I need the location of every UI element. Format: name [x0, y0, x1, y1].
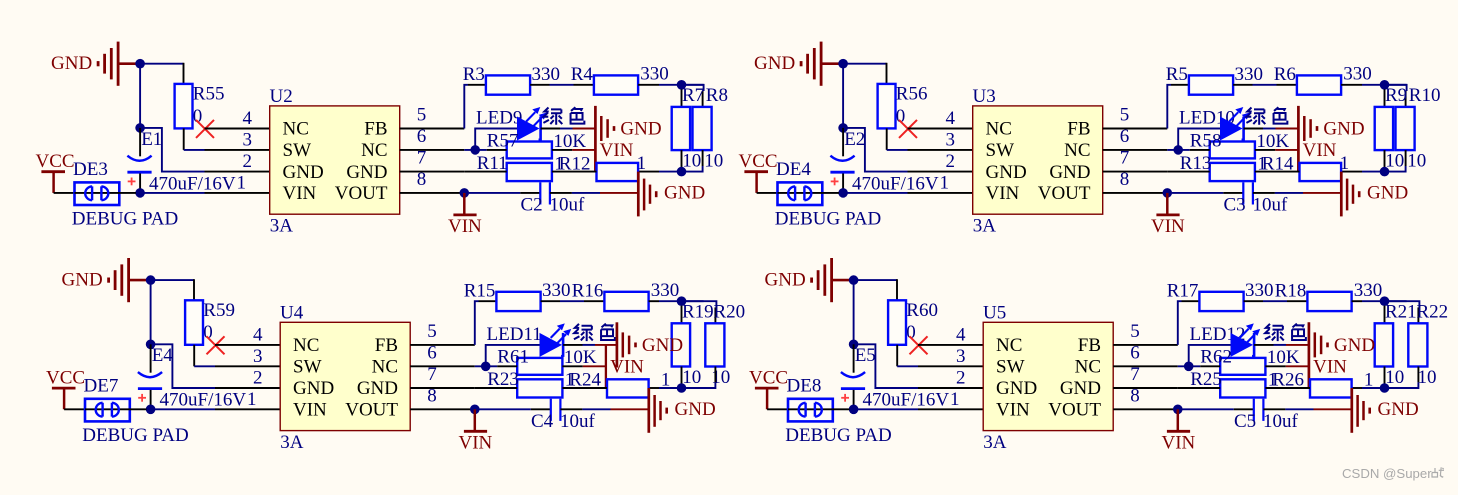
wire junction up to LED [475, 129, 517, 150]
wire between divider resistors [1255, 171, 1300, 173]
svg-text:10: 10 [1385, 367, 1404, 388]
svg-text:R10: R10 [1409, 85, 1441, 106]
svg-text:NC: NC [1075, 357, 1101, 378]
svg-text:GND: GND [1060, 378, 1101, 399]
capacitor C2 (10uf) [469, 182, 585, 215]
svg-text:GND: GND [754, 53, 795, 74]
wire 330 to divider top [638, 84, 681, 86]
node VOUT junction (Q1) [460, 188, 470, 198]
wire junction to R pair tops [682, 301, 717, 323]
wire GND down to cap [150, 284, 152, 344]
svg-text:VCC: VCC [739, 151, 778, 172]
svg-text:4: 4 [956, 324, 966, 345]
svg-text:330: 330 [640, 64, 669, 85]
svg-text:GND: GND [765, 269, 806, 290]
wire GND junction to resistor drop [155, 279, 194, 300]
svg-text:VIN: VIN [610, 357, 644, 378]
svg-text:R56: R56 [896, 84, 928, 105]
wire pad to pin 1 [833, 408, 984, 410]
wire between divider resistors [1265, 387, 1310, 389]
svg-text:3A: 3A [973, 216, 997, 237]
wire between 330 resistors [1244, 300, 1308, 302]
svg-text:SW: SW [293, 357, 322, 378]
resistor R59 (0 ohm) [185, 300, 235, 345]
wire pin 3 stub [215, 365, 281, 367]
node divider top junction (Q2) [1380, 80, 1390, 90]
ground GND symbol (mid, Q3) [617, 322, 683, 367]
svg-text:R7: R7 [682, 85, 704, 106]
svg-text:VIN: VIN [1151, 216, 1185, 237]
svg-text:E5: E5 [855, 345, 876, 366]
svg-text:3A: 3A [983, 432, 1007, 453]
svg-text:GND: GND [1378, 399, 1419, 420]
svg-text:10: 10 [1418, 367, 1437, 388]
wire R 10K to VIN tap [1265, 365, 1309, 367]
wire pin 4 stub [215, 344, 281, 346]
debug pad DE3 [72, 159, 178, 229]
svg-text:VIN: VIN [1303, 140, 1337, 161]
svg-text:CSDN @Super: CSDN @Super [1342, 466, 1432, 481]
debug pad DE4 [775, 159, 881, 229]
svg-text:DE3: DE3 [73, 159, 108, 180]
resistor R21 (10) [1375, 302, 1417, 388]
svg-text:330: 330 [532, 64, 561, 85]
svg-text:1: 1 [1340, 153, 1350, 174]
wire R 10K to VIN tap [1255, 149, 1299, 151]
ground GND symbol (bottom right, Q4) [1352, 388, 1419, 433]
wire pin7 to R [1167, 171, 1209, 173]
svg-text:VIN: VIN [600, 140, 634, 161]
svg-text:10K: 10K [1267, 347, 1300, 368]
wire R pair bottoms [638, 150, 703, 172]
svg-text:U4: U4 [280, 302, 304, 323]
wire R pair bottoms [649, 367, 716, 389]
resistor R60 (0 ohm) [888, 300, 938, 345]
node divider bottom junction (Q1) [677, 167, 687, 177]
svg-text:2: 2 [956, 368, 966, 389]
wire GND down to cap [139, 68, 141, 128]
svg-text:R9: R9 [1385, 85, 1407, 106]
resistor R19 (10) [672, 302, 714, 388]
svg-text:VIN: VIN [1313, 357, 1347, 378]
op-amp regulator U5 (3A) [950, 302, 1140, 453]
wire between divider resistors [552, 171, 597, 173]
svg-text:VOUT: VOUT [1038, 183, 1091, 204]
node cap bottom junction (Q4) [849, 405, 859, 415]
svg-text:GND: GND [996, 378, 1037, 399]
svg-text:NC: NC [293, 335, 319, 356]
power VIN label (mid, Q4) [1313, 357, 1347, 378]
wire pin 5 stub [1103, 128, 1168, 130]
wire pin 7 stub [1113, 387, 1178, 389]
svg-text:5: 5 [1120, 105, 1130, 126]
svg-text:330: 330 [542, 280, 571, 301]
label green color [1246, 107, 1287, 124]
ground GND symbol (mid, Q4) [1309, 322, 1375, 388]
ground GND symbol (mid, Q1) [595, 106, 661, 172]
svg-text:330: 330 [1343, 64, 1372, 85]
wire pin 5 to feedback resistors [1167, 85, 1189, 129]
debug pad DE8 [785, 376, 891, 446]
wire R 10K to VIN tap [552, 149, 596, 151]
wire pin 3 stub [918, 365, 984, 367]
wire pin 6 stub [410, 365, 475, 367]
svg-text:1: 1 [237, 172, 247, 193]
svg-text:VIN: VIN [293, 400, 327, 421]
ground GND symbol (top left, Q3) [62, 258, 151, 302]
wire junction to R pair tops [682, 85, 704, 107]
svg-text:GND: GND [357, 378, 398, 399]
svg-text:1: 1 [940, 172, 950, 193]
svg-text:10uf: 10uf [1253, 195, 1289, 216]
svg-text:R60: R60 [906, 300, 938, 321]
wire R bottom to pin 3 [184, 128, 205, 150]
wire junction to pin 2 [848, 128, 974, 172]
power VCC symbol (Q1) [36, 151, 75, 193]
power VCC symbol (Q3) [46, 367, 85, 409]
wire pin6 to R 10K [1178, 365, 1220, 367]
svg-text:3A: 3A [280, 432, 304, 453]
resistor R11 (1) [477, 153, 564, 181]
wire pin 5 stub [400, 128, 465, 130]
svg-text:VCC: VCC [749, 367, 788, 388]
LED emission arrows [1240, 323, 1261, 343]
wire GND down to cap [842, 68, 844, 128]
node cap top junction (Q4) [849, 340, 859, 350]
op-amp regulator U4 (3A) [247, 302, 437, 453]
svg-text:VIN: VIN [996, 400, 1030, 421]
svg-text:R16: R16 [572, 281, 604, 302]
svg-text:GND: GND [664, 183, 705, 204]
LED emission arrows [526, 107, 547, 127]
wire pin 5 stub [1113, 344, 1178, 346]
svg-text:NC: NC [996, 335, 1022, 356]
node divider top junction (Q3) [677, 296, 687, 306]
wire cap to ground [550, 192, 638, 194]
svg-text:330: 330 [1235, 64, 1264, 85]
svg-text:10: 10 [682, 151, 701, 172]
node GND junction (Q3) [146, 275, 156, 285]
svg-text:R55: R55 [193, 84, 225, 105]
resistor R6 (330) [1274, 64, 1372, 95]
wire pin 4 stub [205, 128, 271, 130]
svg-text:R21: R21 [1385, 302, 1417, 323]
svg-text:10K: 10K [1256, 131, 1289, 152]
wire pin 8 stub [1113, 408, 1178, 410]
svg-text:DEBUG PAD: DEBUG PAD [775, 209, 881, 230]
node divider bottom junction (Q3) [677, 383, 687, 393]
wire 330 to divider top [1352, 300, 1385, 302]
svg-text:470uF/16V: 470uF/16V [149, 173, 236, 194]
ground GND symbol (bottom right, Q3) [649, 388, 716, 433]
no-connect X marker [910, 336, 928, 354]
svg-text:DE7: DE7 [84, 376, 119, 397]
wire GND junction to resistor drop [858, 279, 897, 300]
svg-text:1: 1 [950, 389, 960, 410]
capacitor E1 (470uF/16V) [127, 128, 235, 194]
wire pin 4 stub [918, 344, 984, 346]
svg-text:NC: NC [361, 140, 387, 161]
wire pad to pin 1 [130, 408, 281, 410]
svg-text:R3: R3 [463, 64, 485, 85]
svg-text:C4: C4 [531, 411, 554, 432]
node cap bottom junction (Q2) [838, 188, 848, 198]
resistor R4 (330) [571, 64, 669, 95]
wire pad to pin 1 [119, 192, 270, 194]
svg-text:R19: R19 [682, 302, 714, 323]
node divider bottom junction (Q4) [1380, 383, 1390, 393]
svg-text:GND: GND [293, 378, 334, 399]
resistor R7 (10) [672, 85, 704, 171]
node cap top junction (Q1) [135, 123, 145, 133]
resistor R12 (1) [559, 153, 646, 181]
wire between 330 resistors [530, 84, 594, 86]
resistor R16 (330) [572, 280, 680, 311]
wire pin 5 to feedback resistors [1178, 301, 1200, 345]
wire 330 to divider top [1341, 84, 1384, 86]
node cap top junction (Q2) [838, 123, 848, 133]
node VOUT junction (Q3) [470, 405, 480, 415]
resistor R57 (10K) [487, 130, 587, 158]
LED LED10 (green) [1179, 107, 1244, 141]
wire pin 7 stub [1103, 171, 1168, 173]
svg-text:10: 10 [1385, 151, 1404, 172]
wire junction to pin 2 [155, 344, 281, 388]
svg-text:10: 10 [1407, 151, 1426, 172]
svg-text:R62: R62 [1200, 347, 1232, 368]
svg-text:GND: GND [346, 162, 387, 183]
node LED feed junction (Q4) [1184, 362, 1194, 372]
resistor R62 (10K) [1200, 347, 1300, 375]
svg-text:FB: FB [375, 335, 398, 356]
svg-text:GND: GND [986, 162, 1027, 183]
wire junction to R pair tops [1385, 85, 1407, 107]
svg-text:DEBUG PAD: DEBUG PAD [785, 425, 891, 446]
svg-text:10K: 10K [564, 347, 597, 368]
svg-text:R8: R8 [706, 85, 728, 106]
wire cap to ground [560, 408, 648, 410]
svg-text:10: 10 [704, 151, 723, 172]
svg-text:R18: R18 [1275, 281, 1307, 302]
svg-text:GND: GND [1323, 119, 1364, 140]
wire pin 5 to feedback resistors [475, 301, 497, 345]
svg-text:R20: R20 [714, 302, 746, 323]
node GND junction (Q4) [849, 275, 859, 285]
resistor R9 (10) [1375, 85, 1407, 171]
svg-text:C5: C5 [1234, 411, 1256, 432]
svg-text:10: 10 [682, 367, 701, 388]
wire GND junction to resistor drop [145, 63, 184, 84]
resistor R3 (330) [463, 64, 560, 95]
svg-text:2: 2 [243, 151, 253, 172]
svg-text:VCC: VCC [36, 151, 75, 172]
wire R pair bottoms [1341, 150, 1406, 172]
resistor R58 (10K) [1190, 130, 1290, 158]
svg-text:10uf: 10uf [1263, 411, 1299, 432]
svg-text:SW: SW [986, 140, 1015, 161]
svg-text:VIN: VIN [283, 183, 317, 204]
node divider top junction (Q1) [677, 80, 687, 90]
power VIN symbol (Q1) [448, 193, 482, 237]
svg-text:10uf: 10uf [560, 411, 596, 432]
svg-text:330: 330 [1354, 280, 1383, 301]
watermark CSDN [1342, 466, 1444, 481]
svg-text:SW: SW [283, 140, 312, 161]
LED LED12 (green) [1190, 324, 1255, 359]
svg-text:E2: E2 [844, 129, 865, 150]
resistor R18 (330) [1275, 280, 1383, 311]
resistor R13 (1) [1180, 153, 1267, 181]
svg-text:470uF/16V: 470uF/16V [863, 390, 950, 411]
no-connect X marker [207, 336, 225, 354]
capacitor C5 (10uf) [1183, 399, 1299, 432]
LED emission arrows [551, 323, 572, 343]
power VCC symbol (Q4) [749, 367, 788, 409]
svg-text:1: 1 [637, 153, 647, 174]
resistor R5 (330) [1166, 64, 1263, 95]
wire R 10K to VIN tap [562, 365, 606, 367]
node LED feed junction (Q3) [481, 362, 491, 372]
wire LED cathode to ground [563, 344, 617, 346]
wire pin7 to R [464, 171, 506, 173]
svg-text:GND: GND [620, 119, 661, 140]
wire pin 3 stub [908, 149, 974, 151]
svg-text:C2: C2 [521, 195, 543, 216]
svg-text:R17: R17 [1167, 281, 1199, 302]
svg-text:VOUT: VOUT [345, 400, 398, 421]
wire junction up to LED [486, 345, 540, 366]
svg-text:VIN: VIN [1162, 433, 1196, 454]
wire pin 6 stub [1113, 365, 1178, 367]
wire GND down to cap [853, 284, 855, 344]
svg-text:GND: GND [1049, 162, 1090, 183]
svg-text:10: 10 [711, 367, 730, 388]
svg-text:3A: 3A [270, 216, 294, 237]
wire pad to pin 1 [822, 192, 973, 194]
svg-text:GND: GND [283, 162, 324, 183]
ground GND symbol (top left, Q2) [754, 42, 843, 86]
svg-text:5: 5 [417, 105, 427, 126]
wire R bottom to pin 3 [887, 128, 908, 150]
ground GND symbol (top left, Q1) [51, 42, 140, 86]
wire pin6 to R 10K [464, 149, 506, 151]
wire pin 8 stub [400, 192, 465, 194]
wire pin 8 stub [1103, 192, 1168, 194]
wire between 330 resistors [541, 300, 605, 302]
svg-text:5: 5 [427, 321, 437, 342]
power VCC symbol (Q2) [739, 151, 778, 193]
svg-text:GND: GND [51, 53, 92, 74]
wire junction to pin 2 [858, 344, 984, 388]
svg-text:3: 3 [243, 129, 253, 150]
power VIN symbol (Q3) [459, 409, 493, 453]
node VOUT junction (Q2) [1163, 188, 1173, 198]
svg-text:330: 330 [1245, 280, 1274, 301]
wire 330 to divider top [649, 300, 682, 302]
svg-text:10K: 10K [553, 131, 586, 152]
power VIN label (mid, Q2) [1303, 140, 1337, 161]
svg-text:LED11: LED11 [487, 324, 542, 345]
svg-text:VIN: VIN [986, 183, 1020, 204]
node GND junction (Q2) [838, 59, 848, 69]
svg-text:VOUT: VOUT [335, 183, 388, 204]
wire pin 5 stub [410, 344, 475, 346]
svg-text:R57: R57 [487, 130, 519, 151]
resistor R17 (330) [1167, 280, 1274, 311]
svg-text:DE8: DE8 [787, 376, 822, 397]
ground GND symbol (bottom right, Q2) [1341, 172, 1408, 217]
label green color [543, 107, 584, 124]
svg-text:VIN: VIN [448, 216, 482, 237]
svg-text:3: 3 [956, 346, 966, 367]
node cap bottom junction (Q3) [146, 405, 156, 415]
svg-text:GND: GND [1367, 183, 1408, 204]
label green color [1265, 324, 1306, 341]
wire GND junction to resistor drop [848, 63, 887, 84]
svg-text:GND: GND [642, 335, 683, 356]
svg-text:3: 3 [946, 129, 956, 150]
LED LED9 (green) [476, 107, 541, 141]
no-connect X marker [899, 120, 917, 138]
wire between divider resistors [562, 387, 607, 389]
svg-text:R59: R59 [203, 300, 235, 321]
svg-text:VIN: VIN [459, 433, 493, 454]
wire junction up to LED [1189, 345, 1231, 366]
wire R bottom to pin 3 [897, 345, 918, 367]
wire pin 5 to feedback resistors [464, 85, 486, 129]
svg-text:2: 2 [946, 151, 956, 172]
resistor R10 (10) [1396, 85, 1441, 171]
wire pin6 to R 10K [1167, 149, 1209, 151]
wire pin6 to R 10K [475, 365, 517, 367]
svg-text:R4: R4 [571, 64, 594, 85]
svg-text:GND: GND [62, 269, 103, 290]
svg-text:NC: NC [283, 119, 309, 140]
no-connect X marker [196, 120, 214, 138]
svg-text:NC: NC [986, 119, 1012, 140]
svg-text:U3: U3 [973, 86, 996, 107]
node GND junction (Q1) [135, 59, 145, 69]
svg-text:1: 1 [661, 369, 671, 390]
resistor R61 (10K) [497, 347, 597, 375]
resistor R24 (1) [569, 369, 670, 397]
svg-text:U5: U5 [983, 302, 1006, 323]
resistor R25 (1) [1190, 369, 1277, 397]
wire pin 6 stub [1103, 149, 1168, 151]
svg-text:470uF/16V: 470uF/16V [852, 173, 939, 194]
resistor R56 (0 ohm) [878, 84, 928, 129]
wire pin7 to R [475, 387, 517, 389]
ground GND symbol (top left, Q4) [765, 258, 854, 302]
debug pad DE7 [82, 376, 188, 446]
svg-text:1: 1 [1364, 369, 1374, 390]
power VIN symbol (Q4) [1162, 409, 1196, 453]
svg-text:4: 4 [253, 324, 263, 345]
node divider bottom junction (Q2) [1380, 167, 1390, 177]
power VIN label (mid, Q1) [600, 140, 634, 161]
svg-text:LED9: LED9 [476, 107, 522, 128]
ground GND symbol (mid, Q2) [1298, 106, 1364, 172]
svg-text:DEBUG PAD: DEBUG PAD [82, 425, 188, 446]
wire LED cathode to ground [1244, 128, 1299, 130]
power VIN label (mid, Q3) [610, 357, 644, 378]
wire LED cathode to ground [1254, 344, 1309, 346]
node LED feed junction (Q1) [470, 145, 480, 155]
wire R pair bottoms [1352, 367, 1419, 389]
svg-text:U2: U2 [270, 86, 293, 107]
capacitor E2 (470uF/16V) [830, 128, 938, 194]
power VIN symbol (Q2) [1151, 193, 1185, 237]
